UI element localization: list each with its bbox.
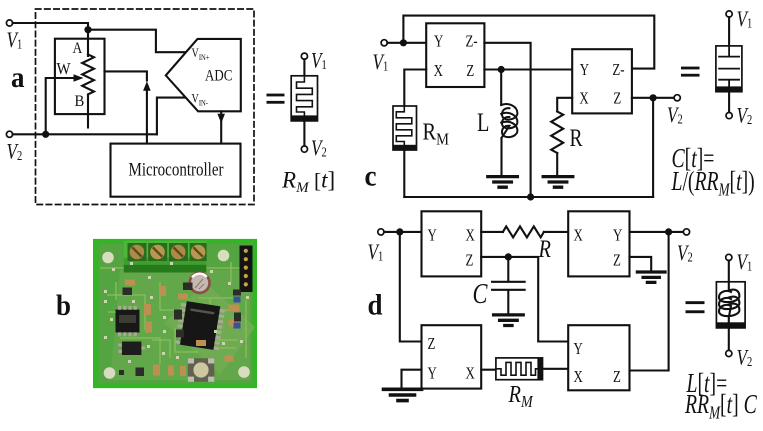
wire wiper to ADC side (105, 71, 147, 80)
SOIC8 IC (116, 310, 140, 333)
terminal V2 (6, 131, 12, 137)
wire below B (87, 96, 89, 128)
wiper arrow W (46, 78, 77, 134)
blue smd (234, 297, 241, 303)
mounting hole bottom-right (238, 366, 250, 378)
wire U7 Z output up to V2 node (630, 232, 669, 371)
inductor L coil (501, 104, 517, 120)
svg-text:X: X (434, 62, 444, 80)
wire capacitor to ground (507, 291, 509, 314)
svg-text:Microcontroller: Microcontroller (129, 159, 224, 180)
svg-text:d: d (368, 289, 383, 322)
wire U3 X input from resistor (557, 98, 572, 112)
wire node to ADC VIN+ (88, 30, 187, 53)
resistor R zigzag (551, 112, 563, 154)
equals sign (267, 94, 285, 97)
equals sign (681, 67, 700, 70)
wire memristor to bottom rail (403, 150, 405, 197)
thick electrode bar (716, 86, 742, 91)
svg-text:Z: Z (613, 90, 621, 108)
memristor RM symbol terminal V1 (301, 53, 307, 59)
node junction bottom (42, 131, 49, 138)
wire V2 rail (13, 133, 157, 135)
passive components tan (125, 280, 240, 377)
terminal screw 2 (150, 245, 165, 260)
wire junction to capacitor C (507, 257, 509, 281)
wire U3 Z output to V2 (632, 97, 674, 99)
mounting hole top-right (218, 250, 230, 262)
wire ADC to MCU with down arrow (220, 111, 222, 143)
wire V1 to potentiometer top (13, 23, 88, 56)
wire inductor to ground (500, 138, 502, 176)
ground at U5 Z (637, 272, 665, 282)
solder pads (104, 262, 249, 363)
svg-text:Z: Z (466, 62, 474, 80)
node junction V1 (400, 39, 407, 46)
multiplier U3 box (572, 49, 632, 113)
svg-text:RM [t]: RM [t] (281, 168, 335, 197)
memristor symbol terminal V2 (301, 146, 307, 152)
multiplier U2 box (426, 23, 484, 87)
memristor thick electrode bar (291, 115, 317, 121)
pin header (240, 246, 253, 293)
node junction V2 (650, 94, 657, 101)
svg-text:Z: Z (428, 336, 436, 354)
node junction top (84, 26, 91, 33)
terminal V1 (378, 229, 384, 235)
svg-text:A: A (73, 40, 83, 57)
small SOT IC (122, 342, 141, 356)
wire junction down to U6 Z input (400, 232, 422, 342)
svg-text:X: X (579, 90, 589, 108)
svg-text:Y: Y (428, 227, 438, 245)
ground at U6 Y (384, 389, 422, 400)
terminal screw 4 (191, 245, 206, 260)
terminal screw bases (128, 243, 207, 261)
ground under C (494, 315, 524, 326)
resistor R zigzag horizontal (503, 226, 544, 237)
meminductor box (716, 282, 745, 328)
node junction at inductor (498, 66, 505, 73)
svg-text:Z-: Z- (466, 33, 478, 51)
memristor RM box (393, 106, 417, 150)
terminal V2 (674, 95, 680, 101)
svg-text:Z: Z (466, 252, 474, 270)
terminal V2 (683, 229, 689, 235)
svg-text:X: X (574, 369, 584, 387)
wire resistor to ground (556, 153, 558, 176)
mounting hole bottom-left (104, 367, 116, 379)
thick electrode bar (716, 322, 745, 328)
ground under R (543, 177, 573, 188)
svg-text:R: R (538, 234, 551, 263)
svg-text:Y: Y (574, 341, 584, 359)
electrolytic capacitor (188, 272, 211, 295)
memristor meander horizontal (496, 362, 538, 375)
wire node to inductor (500, 70, 502, 106)
meminductor symbol terminal V1 (726, 254, 732, 260)
equals sign (686, 301, 705, 304)
wire (728, 328, 730, 351)
svg-text:Z: Z (613, 369, 621, 387)
svg-text:ADC: ADC (205, 67, 232, 85)
wire U4 Z output to U7 Y input (481, 257, 568, 342)
memristor thick electrode bar (537, 358, 542, 380)
terminal screw 3 (171, 245, 186, 260)
wire V2 to ADC VIN- (157, 98, 186, 135)
multiplier U5 box (568, 211, 629, 276)
meminductor terminal V2 (726, 350, 732, 356)
node junction capacitor (505, 253, 512, 260)
wire V1 to U2 Y input (387, 42, 426, 44)
svg-text:L/(RRM[t]): L/(RRM[t]) (671, 167, 755, 200)
passive components dark (119, 283, 241, 377)
wire U2 Z output to U3 Y input (484, 68, 572, 70)
wire (303, 121, 305, 146)
wire U2 Z- output down to rail (484, 43, 530, 197)
svg-text:B: B (75, 94, 85, 110)
svg-text:b: b (56, 290, 71, 323)
wire U6 Y input to ground (402, 370, 422, 388)
svg-text:X: X (574, 227, 584, 245)
capacitor C plates (492, 282, 524, 290)
terminal screw 1 (130, 245, 145, 260)
terminal V1 (6, 20, 12, 26)
inductor coil inside (719, 283, 739, 302)
svg-text:Y: Y (428, 365, 438, 383)
wire (728, 261, 730, 291)
wire U4 X output to resistor (481, 231, 503, 233)
wire U5 Y output to V2 (630, 231, 684, 233)
dashed emulator boundary box (36, 9, 255, 205)
memristor RM box (291, 76, 317, 121)
svg-text:a: a (11, 62, 24, 95)
potentiometer box (55, 39, 105, 114)
memristor meander (297, 76, 313, 116)
svg-text:Y: Y (613, 227, 623, 245)
svg-text:c: c (365, 160, 377, 193)
wire memristor to U7 X input (543, 368, 568, 370)
wire U6 X output to memristor (481, 369, 496, 371)
ground under L (488, 177, 518, 188)
memristor RM box horizontal (496, 358, 543, 380)
wire V1 to U4 Y input (384, 231, 422, 233)
svg-text:X: X (466, 227, 476, 245)
screw terminal block (124, 241, 207, 273)
wire (728, 92, 730, 113)
main IC SOIC14 (175, 300, 226, 350)
wire resistor to U5 X input (544, 231, 568, 233)
svg-text:Z-: Z- (612, 62, 624, 80)
microcontroller U1 box (111, 144, 241, 197)
wire (303, 59, 305, 76)
svg-text:R: R (570, 123, 583, 151)
board traces (100, 254, 250, 364)
bottom rail wire (404, 196, 653, 198)
memristor thick electrode bar (393, 145, 417, 150)
wire (728, 17, 730, 46)
svg-text:X: X (466, 365, 476, 383)
svg-text:Z: Z (613, 252, 621, 270)
wire U2 X input from memristor (404, 70, 426, 107)
memristor meander (396, 106, 412, 145)
multiplier U6 box (422, 325, 482, 388)
svg-text:C: C (473, 279, 489, 310)
node junction V1 (396, 228, 403, 235)
wire MCU to wiper with up arrow (146, 90, 148, 144)
wire junction down to rail (652, 98, 654, 197)
svg-text:Y: Y (580, 62, 590, 80)
svg-text:Y: Y (434, 33, 444, 51)
capacitor plates (719, 46, 739, 87)
node junction bottom rail (527, 193, 534, 200)
multiplier U7 box (568, 325, 629, 390)
op ADC converter block (166, 39, 241, 111)
svg-text:L: L (477, 108, 489, 137)
svg-text:W: W (57, 61, 71, 79)
memcapacitor terminal V2 (726, 113, 732, 119)
mounting hole top-left (102, 252, 114, 264)
tactile button (188, 358, 215, 382)
node junction V2 (665, 228, 672, 235)
board substrate (93, 239, 257, 388)
wire top feedback rail to U3 Z- (403, 16, 654, 69)
multiplier U4 box (422, 211, 482, 276)
memcapacitor symbol terminal V1 (726, 11, 732, 17)
wire U5 Z output to ground (630, 257, 652, 271)
terminal V1 (381, 40, 387, 46)
svg-text:RRM[t] C: RRM[t] C (684, 390, 757, 423)
memcapacitor box (716, 46, 742, 92)
resistor zigzag of potentiometer (82, 54, 94, 94)
